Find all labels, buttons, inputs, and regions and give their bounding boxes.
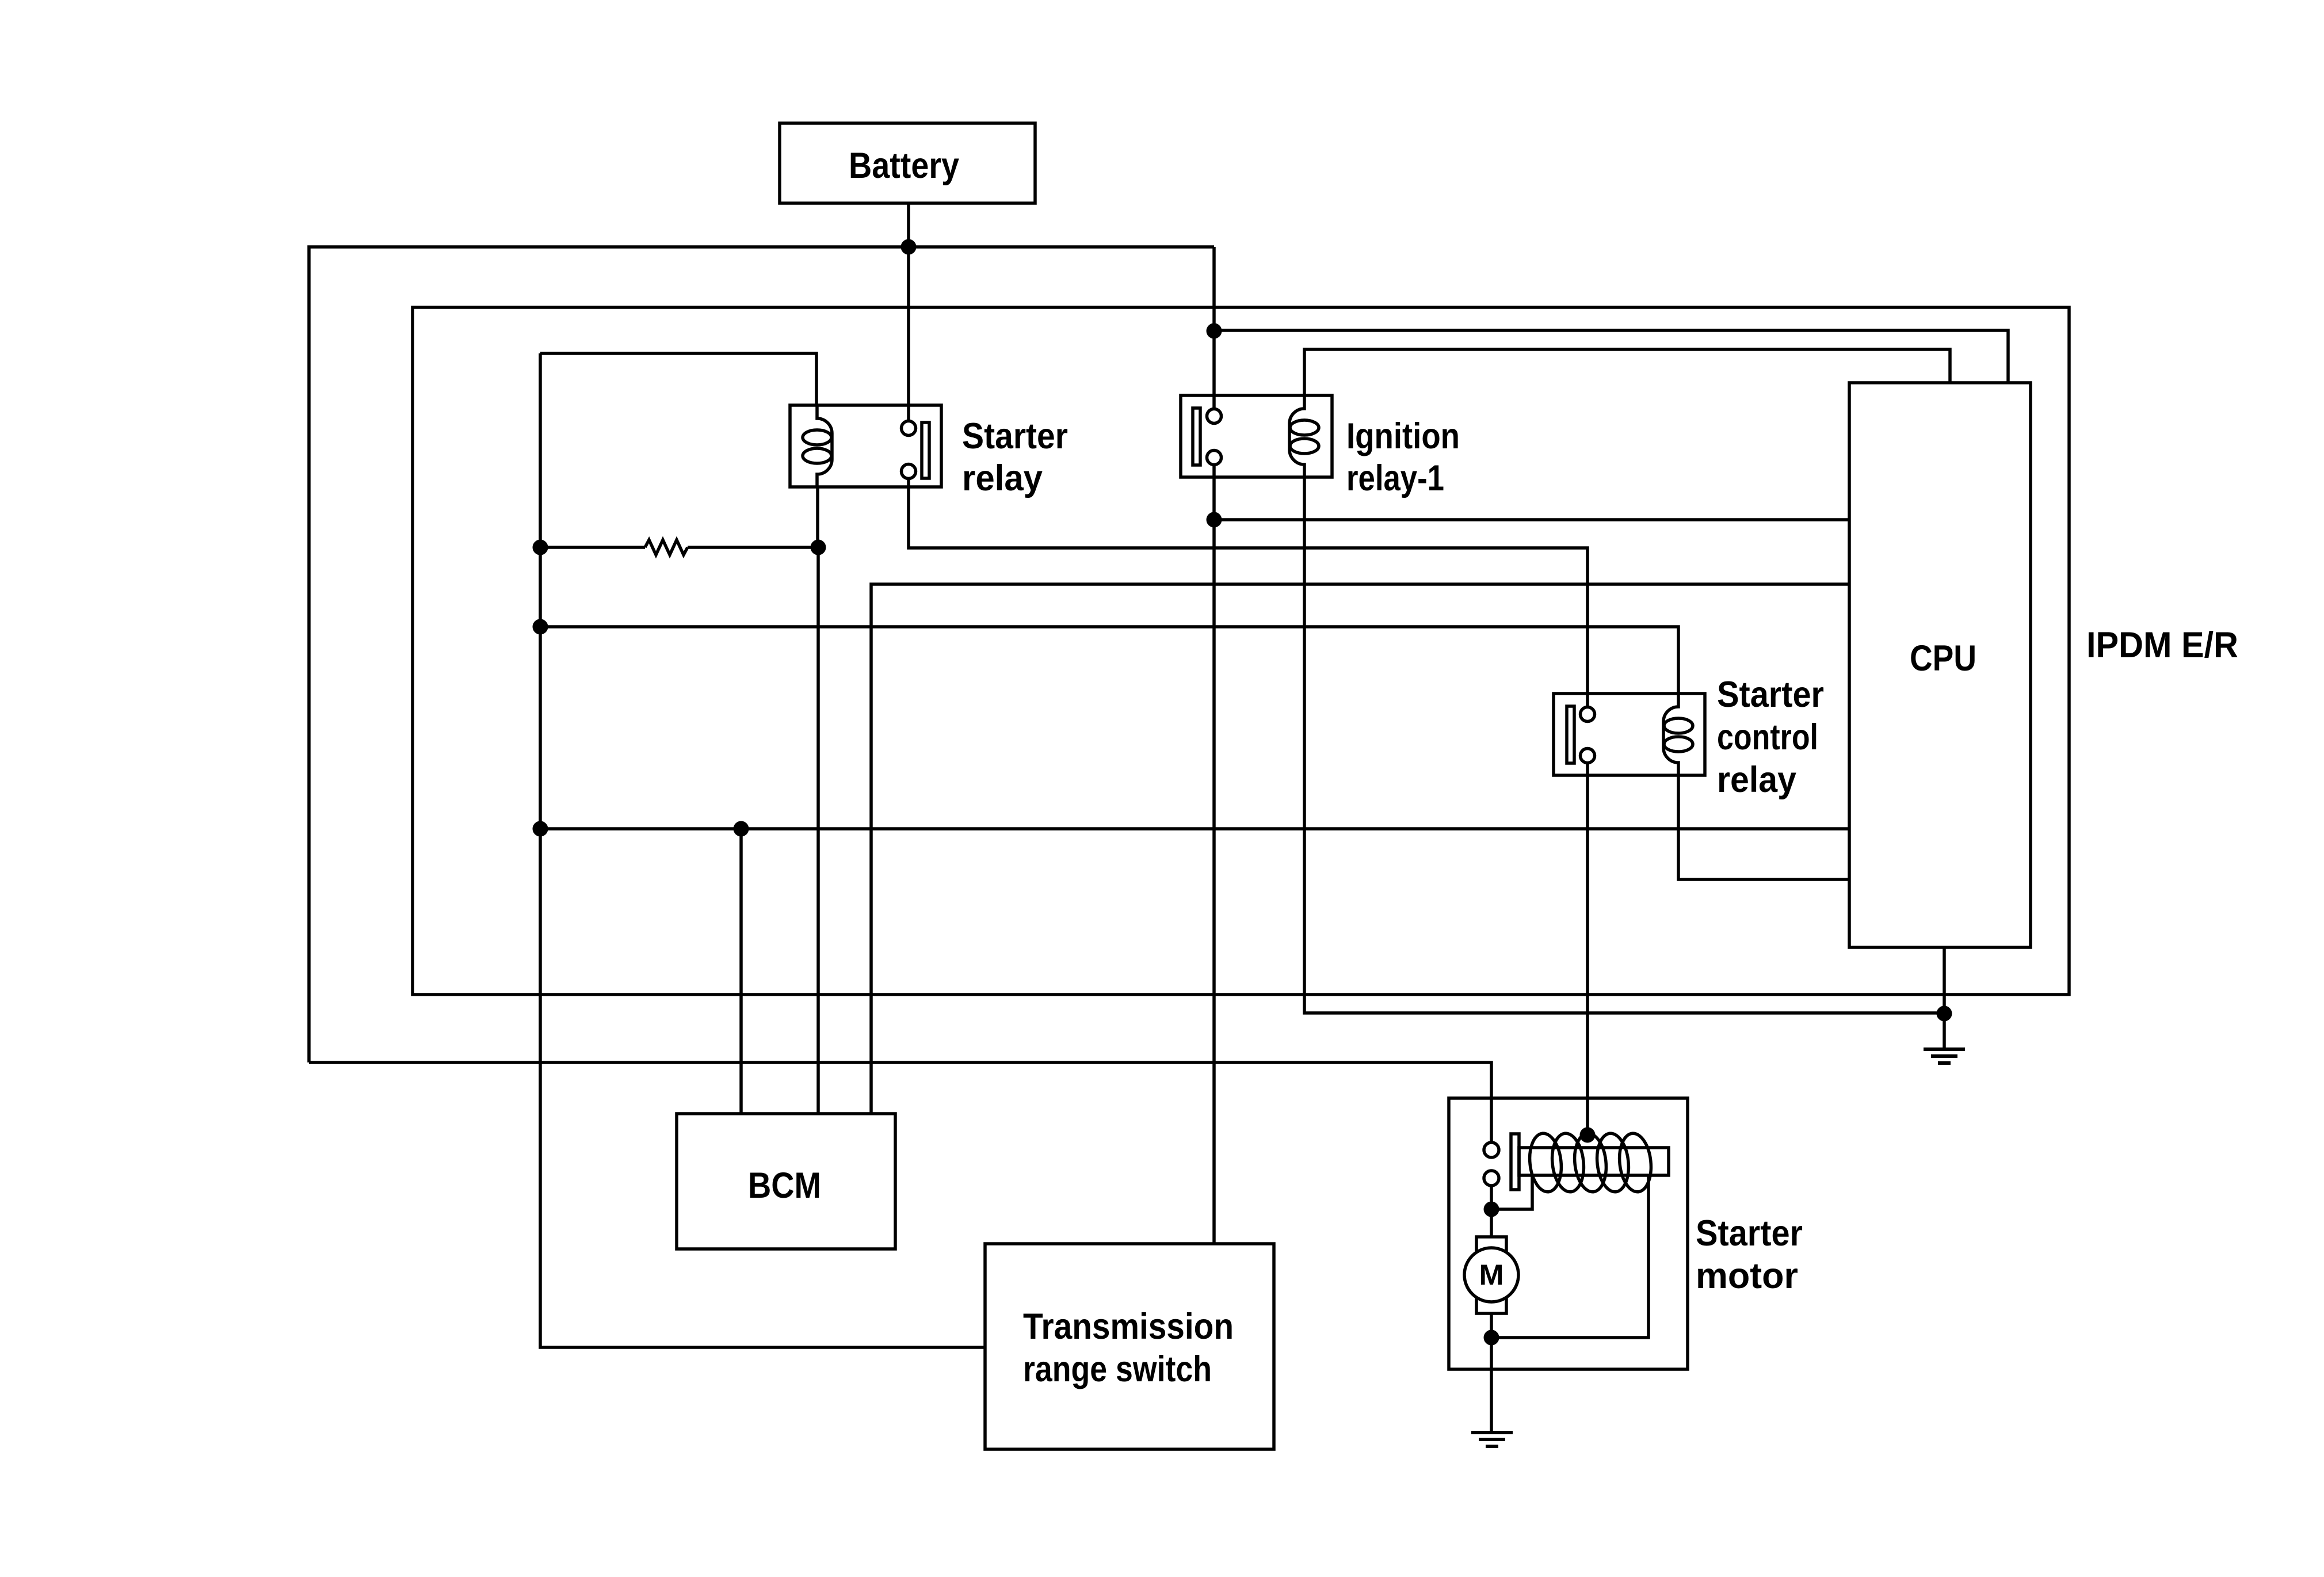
- BCM box: [677, 1114, 895, 1249]
- svg-text:relay-1: relay-1: [1346, 458, 1444, 498]
- wire BCM wire x=1421: [816, 487, 819, 547]
- node resistor right: [811, 540, 826, 555]
- ignition relay U2 box: [1181, 395, 1332, 477]
- wire y=1089 to starter control relay coil: [540, 627, 1678, 694]
- wire control relay coil bottom to CPU: [1678, 775, 1849, 879]
- wire battery feed horizontal y=429: [309, 247, 1214, 1062]
- wire node to solenoid core: [1491, 1176, 1532, 1209]
- wire control relay contact down to starter motor coil: [1586, 763, 1589, 1135]
- wire battery to starter relay top contact x=1579: [907, 247, 910, 421]
- CPU box: [1849, 383, 2031, 947]
- svg-text:Battery: Battery: [849, 146, 959, 186]
- node CPU ground: [1937, 1006, 1952, 1022]
- starter motor box: [1449, 1098, 1688, 1369]
- node solenoid contact junction: [1484, 1202, 1499, 1217]
- starter control relay coil: [1663, 694, 1678, 775]
- svg-text:BCM: BCM: [748, 1165, 821, 1206]
- svg-text:relay: relay: [962, 458, 1043, 498]
- node ignition bottom contact branch: [1207, 512, 1222, 528]
- solenoid core: [1519, 1148, 1669, 1175]
- node starter motor coil top: [1580, 1127, 1596, 1143]
- ignition relay coil: [1289, 395, 1304, 477]
- wire solenoid right end to motor bottom node: [1491, 1175, 1648, 1338]
- wire CPU bottom to ground: [1943, 947, 1946, 1049]
- starter relay coil: [817, 405, 832, 487]
- svg-text:Ignition: Ignition: [1346, 416, 1460, 456]
- motor brush rect: [1476, 1237, 1506, 1313]
- ignition relay contacts: [1207, 409, 1222, 424]
- solenoid flange: [1511, 1134, 1519, 1190]
- svg-text:M: M: [1479, 1259, 1504, 1291]
- wire resistor line left: [540, 546, 645, 549]
- wire ignition relay top contact drop x=2110: [1212, 247, 1216, 409]
- svg-text:IPDM E/R: IPDM E/R: [2086, 625, 2238, 665]
- node ignition top branch: [1207, 323, 1222, 339]
- wire ignition relay bottom contact to transmission range switch: [1212, 465, 1216, 1244]
- svg-text:control: control: [1717, 717, 1818, 757]
- node spine y=1440: [533, 821, 548, 837]
- wire ignition coil top to CPU: [1304, 349, 1950, 395]
- starter control relay contacts: [1581, 707, 1595, 722]
- svg-text:Starter: Starter: [1696, 1213, 1803, 1254]
- node battery junction: [901, 239, 917, 255]
- wire outer bottom y=1846 to starter motor: [309, 1062, 1491, 1142]
- svg-text:CPU: CPU: [1910, 638, 1976, 679]
- ignition relay switch bar: [1193, 408, 1200, 465]
- wire battery stub down: [907, 203, 910, 247]
- svg-text:relay: relay: [1717, 760, 1796, 800]
- wire solenoid contact stub to node: [1490, 1186, 1493, 1209]
- IPDM E/R box: [413, 307, 2069, 995]
- svg-text:Transmission: Transmission: [1023, 1306, 1234, 1347]
- starter relay U1 box: [790, 405, 941, 487]
- wire starter relay coil top from node: [540, 353, 816, 405]
- starter relay switch bar: [922, 422, 929, 478]
- node resistor left: [533, 540, 548, 555]
- svg-text:range switch: range switch: [1023, 1349, 1212, 1389]
- transmission range switch box: [985, 1244, 1274, 1449]
- node motor bottom junction: [1484, 1330, 1499, 1346]
- wire y=903 ignition contact to CPU: [1214, 518, 1849, 521]
- wire y=1440 to CPU: [540, 827, 1849, 831]
- starter motor solenoid contacts: [1484, 1142, 1499, 1157]
- ground starter motor: [1471, 1433, 1513, 1446]
- starter relay contacts: [902, 421, 916, 436]
- wire node to motor brushes: [1490, 1209, 1493, 1237]
- battery box: [780, 123, 1035, 203]
- resistor R1: [645, 540, 688, 555]
- svg-text:Starter: Starter: [962, 416, 1068, 456]
- node BCM branch y=1440: [734, 821, 749, 837]
- svg-text:Starter: Starter: [1717, 675, 1824, 715]
- node spine y=1089: [533, 619, 548, 635]
- motor M circle: [1464, 1248, 1518, 1302]
- svg-text:motor: motor: [1696, 1256, 1798, 1296]
- wire ignition coil bottom to CPU ground node: [1304, 477, 1944, 1013]
- wire starter relay contact to starter control relay: [909, 479, 1588, 707]
- starter control relay U3 box: [1554, 694, 1705, 775]
- wire left spine x=939 down to transmission range switch: [540, 353, 985, 1347]
- wire motor bottom to ground: [1490, 1313, 1493, 1433]
- starter control relay switch bar: [1567, 706, 1574, 763]
- solenoid coil loops: [1527, 1132, 1564, 1193]
- wire y=1015 BCM to CPU: [871, 584, 1849, 1114]
- wire y=574 node to CPU: [1214, 330, 2008, 383]
- wire resistor line right: [688, 546, 818, 549]
- ground IPDM: [1924, 1049, 1965, 1063]
- wire BCM wire x=1288: [739, 829, 743, 1114]
